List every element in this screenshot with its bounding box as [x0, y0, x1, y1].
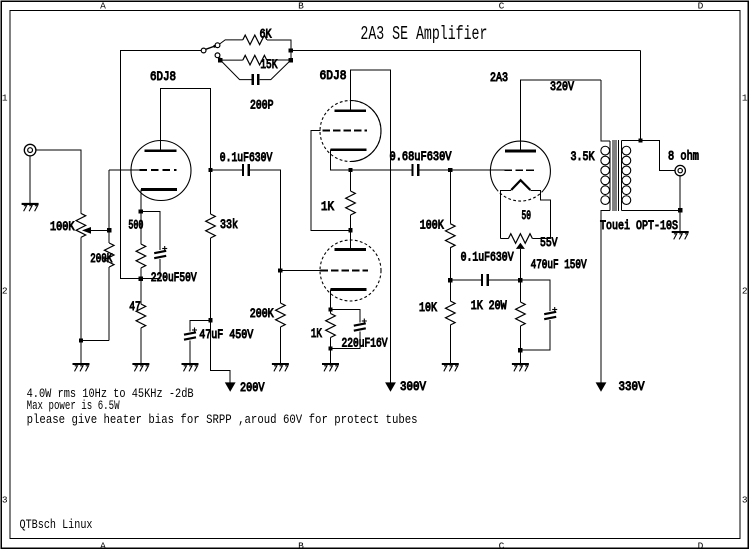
wire V4 filament left lead	[501, 191, 512, 239]
svg-text:220uF16V: 220uF16V	[342, 337, 388, 351]
node secondary ground	[678, 208, 682, 212]
wire V3 plate lead	[350, 230, 352, 249]
node 200V rail junction	[208, 318, 212, 322]
wire secondary bottom	[622, 209, 681, 211]
wire jack sleeve down	[679, 176, 681, 211]
wire 200K bottom to pot bottom	[81, 340, 109, 342]
node V3 cathode	[328, 307, 332, 311]
wire pot bottom	[80, 237, 82, 340]
ground 47	[132, 364, 149, 371]
note text block	[27, 387, 418, 427]
potentiometer 50 hum balance	[501, 209, 558, 280]
wire V3 grid	[280, 270, 320, 272]
capacitor C2 0.68uF630V	[351, 150, 505, 176]
node V3 grid	[278, 268, 282, 272]
wire V4 filament right lead	[530, 191, 550, 239]
switch SW1 common	[201, 48, 206, 53]
svg-text:0.68uF630V: 0.68uF630V	[390, 150, 452, 164]
resistor 200K (wiper load)	[90, 230, 114, 340]
svg-text:10K: 10K	[419, 301, 437, 315]
svg-text:0.1uF630V: 0.1uF630V	[461, 251, 514, 265]
wire grid net vertical	[108, 170, 110, 230]
wire feedback vertical	[640, 51, 642, 141]
transformer T1 primary winding	[601, 146, 610, 204]
svg-text:2A3 SE Amplifier: 2A3 SE Amplifier	[360, 23, 487, 45]
svg-text:100K: 100K	[50, 220, 75, 234]
ground 47uF	[182, 364, 199, 371]
svg-text:0.1uF630V: 0.1uF630V	[220, 151, 273, 165]
wire to ground	[679, 210, 681, 231]
wire V3 cathode ground	[330, 349, 332, 364]
resistor 100K grid divider	[420, 170, 455, 280]
node wiper junction	[107, 228, 111, 232]
ground input	[22, 204, 39, 211]
svg-text:2: 2	[2, 286, 8, 297]
transformer T1 primary bobbin	[609, 141, 611, 211]
svg-text:320V: 320V	[550, 80, 574, 94]
wire to ground	[80, 341, 82, 364]
svg-text:33k: 33k	[220, 218, 238, 232]
supply arrow 330V	[596, 382, 607, 391]
transformer T1 primary lead bottom to 330V	[601, 210, 610, 382]
svg-text:6DJ8: 6DJ8	[320, 69, 347, 83]
svg-text:QTBsch Linux: QTBsch Linux	[20, 518, 93, 532]
svg-text:500: 500	[128, 219, 143, 233]
svg-text:300V: 300V	[400, 380, 426, 394]
resistor 500 cathode bias	[128, 212, 145, 279]
node 15K left	[218, 58, 222, 62]
svg-text:A: A	[100, 541, 106, 550]
resistor 1K cathode V3	[311, 310, 335, 349]
node V1 cathode	[139, 209, 143, 213]
input jack J1	[24, 144, 36, 156]
svg-text:100K: 100K	[420, 219, 444, 233]
ground secondary	[672, 232, 689, 239]
node V3 cathode bottom	[328, 346, 332, 350]
svg-text:3: 3	[2, 495, 8, 506]
svg-text:220uF50V: 220uF50V	[151, 271, 197, 285]
svg-text:3.5K: 3.5K	[571, 150, 595, 164]
node 0.68uF right / 100K top	[448, 168, 452, 172]
wire V3 cathode lead	[330, 290, 332, 310]
svg-text:1K 20W: 1K 20W	[471, 299, 507, 313]
node 15K right	[289, 58, 293, 62]
svg-text:55V: 55V	[540, 236, 558, 250]
transformer T1 secondary winding	[622, 146, 631, 204]
output jack 8 ohm	[668, 150, 699, 176]
svg-text:1K: 1K	[311, 327, 322, 341]
node 1K20W bottom	[518, 348, 522, 352]
tube V1 6DJ8 first stage	[131, 70, 191, 201]
resistor 200K grid leak V3	[250, 271, 286, 364]
switch throw bottom	[215, 53, 220, 58]
capacitor 220uF16V	[331, 310, 388, 351]
svg-text:47: 47	[129, 300, 141, 314]
svg-text:D: D	[698, 541, 704, 550]
tube V3 6DJ8 SRPP lower	[320, 240, 381, 301]
svg-text:8 ohm: 8 ohm	[668, 150, 699, 164]
wire V2 cathode to output node	[331, 150, 351, 170]
node 0.1uF / V1 plate	[208, 168, 212, 172]
capacitor 220uF50V cathode bypass	[141, 212, 197, 286]
transformer T1 core	[613, 140, 619, 211]
svg-text:D: D	[698, 0, 704, 11]
svg-text:330V: 330V	[619, 380, 645, 394]
node cathode feedback junction	[139, 277, 143, 281]
svg-text:200P: 200P	[250, 99, 274, 113]
transformer T1 secondary bobbin	[621, 141, 623, 211]
svg-text:please give heater bias for SR: please give heater bias for SRPP ,aroud …	[27, 413, 418, 427]
node pot ground junction	[79, 338, 83, 342]
potentiometer VR1 100K	[50, 213, 109, 237]
svg-text:470uF 150V: 470uF 150V	[531, 258, 587, 272]
wire 6K-15K tie	[290, 51, 292, 61]
svg-text:B: B	[298, 541, 304, 550]
resistor 1K 20W	[471, 280, 526, 350]
wire V4 plate to transformer	[520, 80, 601, 151]
node feedback tap	[638, 138, 642, 142]
svg-text:1: 1	[2, 92, 8, 103]
svg-text:A: A	[100, 0, 106, 11]
node 6K right	[289, 48, 293, 52]
svg-text:C: C	[499, 541, 505, 550]
capacitor C1 0.1uF630V	[211, 151, 281, 271]
svg-text:1: 1	[742, 92, 748, 103]
wire jack to pot	[36, 150, 81, 213]
node SRPP output	[348, 168, 352, 172]
svg-text:15K: 15K	[260, 58, 277, 72]
wire to 200V arrow	[211, 320, 231, 382]
resistor 15K feedback	[220, 55, 291, 72]
svg-text:1K: 1K	[321, 200, 334, 214]
svg-text:Touei OPT-10S: Touei OPT-10S	[600, 219, 678, 233]
wire V2 grid to lower node	[311, 131, 351, 231]
wire jack sleeve down	[29, 156, 31, 203]
node divider tap	[448, 278, 452, 282]
wire V1 cathode lead	[140, 190, 142, 212]
tube V4 2A3	[490, 71, 550, 201]
svg-text:47uF 450V: 47uF 450V	[199, 328, 253, 342]
supply arrow 200V	[225, 382, 236, 391]
wire secondary top to jack	[622, 141, 675, 171]
svg-text:50: 50	[522, 209, 532, 223]
svg-text:2A3: 2A3	[490, 71, 508, 85]
wire V1 plate to 0.1uF node	[161, 89, 211, 171]
wire feedback from switch down to cathode node	[121, 51, 202, 279]
ground 10K	[442, 364, 459, 371]
resistor 10K divider lower	[419, 280, 455, 363]
supply arrow 300V	[385, 382, 396, 391]
svg-text:B: B	[298, 0, 304, 11]
ground pot	[73, 364, 90, 371]
tube V2 6DJ8 SRPP upper	[320, 69, 382, 162]
svg-text:6K: 6K	[260, 28, 272, 42]
resistor 33k plate load	[206, 170, 238, 320]
wire grid horizontal to tube	[109, 169, 140, 171]
ground 1K20W	[512, 364, 529, 371]
capacitor 200P	[220, 60, 290, 113]
node V4 cathode	[518, 278, 522, 282]
capacitor C3 0.1uF630V	[450, 251, 520, 287]
svg-text:3: 3	[742, 495, 748, 506]
resistor 47	[129, 279, 145, 364]
svg-text:200K: 200K	[90, 252, 112, 266]
svg-text:200V: 200V	[240, 381, 265, 395]
switch blade	[206, 46, 215, 49]
transformer T1 primary lead top	[601, 80, 610, 141]
ground 200K	[272, 364, 289, 371]
wire V2 plate to 300V rail	[351, 70, 391, 383]
capacitor 47uF 450V	[184, 320, 254, 363]
svg-text:C: C	[499, 0, 505, 11]
resistor 6K feedback	[220, 28, 291, 51]
node V3 plate junction	[348, 228, 352, 232]
svg-text:6DJ8: 6DJ8	[150, 70, 176, 84]
ground V3 cathode	[322, 364, 339, 371]
capacitor 470uF 150V	[520, 258, 587, 350]
svg-text:200K: 200K	[250, 307, 274, 321]
svg-text:Max power is 6.5W: Max power is 6.5W	[27, 399, 120, 413]
resistor 1K SRPP	[321, 170, 355, 230]
svg-text:2: 2	[742, 286, 748, 297]
wire to ground	[519, 350, 521, 363]
switch throw top	[215, 43, 220, 48]
wire feedback bus to transformer	[291, 50, 641, 52]
